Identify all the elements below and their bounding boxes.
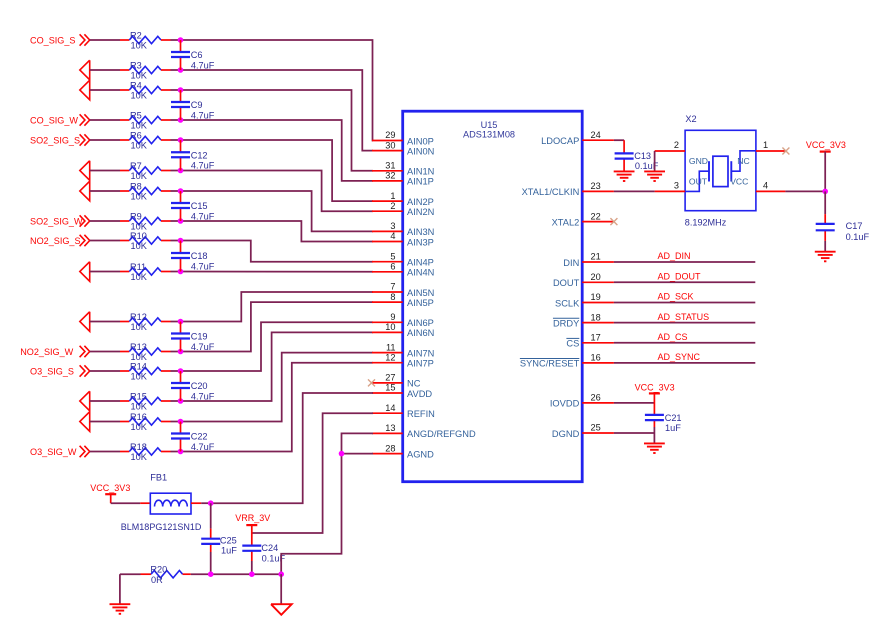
resistor R9 10K xyxy=(120,211,171,231)
svg-text:AD_STATUS: AD_STATUS xyxy=(658,312,710,322)
svg-text:C15: C15 xyxy=(191,201,208,211)
svg-text:C21: C21 xyxy=(665,413,682,423)
wire xyxy=(653,427,655,443)
capacitor C22 4.7uF xyxy=(180,422,182,452)
wire xyxy=(181,332,374,401)
port O3_SIG_W xyxy=(30,447,77,457)
pin 17 (CS) xyxy=(566,333,614,349)
svg-text:AIN0P: AIN0P xyxy=(407,136,434,146)
wire xyxy=(90,451,120,453)
svg-text:3: 3 xyxy=(390,221,395,231)
svg-text:REFIN: REFIN xyxy=(407,409,435,419)
wire xyxy=(614,302,755,304)
wire xyxy=(119,574,121,604)
pin 5 (AIN4P) xyxy=(372,251,434,267)
resistor R12 10K xyxy=(120,312,171,332)
capacitor C25 1uF xyxy=(201,529,237,556)
wire xyxy=(181,171,374,212)
no-connect marker pin 22 XTAL2 xyxy=(610,218,617,225)
svg-text:SO2_SIG_S: SO2_SIG_S xyxy=(30,135,80,145)
port NO2_SIG_S xyxy=(30,236,81,246)
svg-text:10K: 10K xyxy=(131,121,148,131)
pin 30 (AIN0N) xyxy=(372,140,434,156)
pin 20 (DOUT) xyxy=(553,272,614,288)
wire xyxy=(181,90,374,171)
wire xyxy=(181,292,374,322)
wire xyxy=(614,362,755,364)
ground at C13 xyxy=(614,171,635,181)
svg-text:31: 31 xyxy=(385,161,395,171)
svg-text:DGND: DGND xyxy=(552,429,580,439)
port CO_SIG_S xyxy=(30,35,76,45)
wire xyxy=(181,40,374,141)
svg-text:R3: R3 xyxy=(130,60,142,70)
svg-text:DRDY: DRDY xyxy=(553,318,579,328)
wire (AGND) xyxy=(342,453,374,455)
junction node R3 output xyxy=(178,67,184,73)
port (unconnected input) xyxy=(80,161,90,181)
svg-text:10K: 10K xyxy=(131,41,148,51)
svg-text:C22: C22 xyxy=(191,432,208,442)
svg-text:R20: R20 xyxy=(150,564,167,574)
svg-text:C9: C9 xyxy=(191,100,203,110)
IC U15 ADS131M08 body xyxy=(403,111,583,482)
svg-text:DIN: DIN xyxy=(563,258,579,268)
svg-text:3: 3 xyxy=(674,181,679,191)
junction node R14 output xyxy=(178,368,184,374)
pin 9 (AIN6P) xyxy=(372,312,434,328)
svg-text:10: 10 xyxy=(385,322,395,332)
svg-text:4.7uF: 4.7uF xyxy=(191,442,215,452)
wire xyxy=(171,321,181,323)
pin 22 (XTAL2) xyxy=(552,211,614,227)
svg-text:1: 1 xyxy=(390,191,395,201)
X2 pin 3 (OUT) xyxy=(655,181,686,192)
svg-text:AIN1N: AIN1N xyxy=(407,167,434,177)
wire xyxy=(120,573,141,575)
junction node R11 output xyxy=(178,269,184,275)
wire (ANGD/REFGND, AGND to rail) xyxy=(281,433,373,574)
wire xyxy=(181,353,374,422)
port (unconnected input) xyxy=(80,60,90,80)
wire xyxy=(90,39,120,41)
pin 28 (AGND) xyxy=(372,443,434,459)
junction node R5 output xyxy=(178,117,184,123)
svg-text:AGND: AGND xyxy=(407,449,434,459)
svg-text:4.7uF: 4.7uF xyxy=(191,261,215,271)
port arrow SO2_SIG_S xyxy=(80,134,90,145)
capacitor C12 4.7uF xyxy=(180,140,182,171)
junction node R13 output xyxy=(178,349,184,355)
wire xyxy=(181,191,374,231)
pin 31 (AIN1N) xyxy=(372,161,434,177)
wire xyxy=(171,39,181,41)
pin 8 (AIN5P) xyxy=(372,292,434,308)
wire xyxy=(90,220,120,222)
wire xyxy=(90,370,120,372)
wire xyxy=(210,552,212,574)
svg-text:R6: R6 xyxy=(130,130,142,140)
no-connect marker pin 27 xyxy=(368,379,375,386)
capacitor C21 1uF xyxy=(645,393,682,433)
resistor R8 10K xyxy=(120,181,171,201)
svg-text:AIN7P: AIN7P xyxy=(407,359,434,369)
chassis ground (analog) xyxy=(271,604,292,615)
junction node FB1 output xyxy=(208,500,214,506)
resistor R13 10K xyxy=(120,342,171,362)
svg-text:10K: 10K xyxy=(131,402,148,412)
wire xyxy=(171,451,181,453)
svg-text:18: 18 xyxy=(591,312,601,322)
junction node R9 output xyxy=(178,218,184,224)
wire xyxy=(181,140,374,201)
svg-text:22: 22 xyxy=(591,211,601,221)
svg-text:8: 8 xyxy=(390,292,395,302)
X2 pin 2 (GND) xyxy=(655,140,686,151)
svg-text:20: 20 xyxy=(591,272,601,282)
pin 10 (AIN6N) xyxy=(372,322,434,338)
svg-text:R7: R7 xyxy=(130,161,142,171)
svg-text:AIN5P: AIN5P xyxy=(407,298,434,308)
junction node R8 output xyxy=(178,188,184,194)
wire xyxy=(181,221,374,242)
port SO2_SIG_S xyxy=(30,135,80,145)
svg-text:NC: NC xyxy=(737,156,749,166)
wire xyxy=(181,241,374,262)
svg-text:GND: GND xyxy=(689,156,708,166)
pin 32 (AIN1P) xyxy=(372,171,434,187)
pin 29 (AIN0P) xyxy=(372,130,434,146)
pin 21 (DIN) xyxy=(563,252,614,268)
svg-text:R16: R16 xyxy=(130,412,147,422)
wire xyxy=(824,152,826,192)
svg-text:XTAL1/CLKIN: XTAL1/CLKIN xyxy=(522,187,580,197)
svg-text:0.1uF: 0.1uF xyxy=(846,232,870,242)
svg-text:C17: C17 xyxy=(846,221,863,231)
svg-text:16: 16 xyxy=(591,353,601,363)
pin 12 (AIN7P) xyxy=(372,352,434,368)
power VCC_3V3 (FB1 input) xyxy=(90,483,130,503)
junction node R2 output xyxy=(178,37,184,43)
wire xyxy=(171,240,181,242)
svg-text:R5: R5 xyxy=(130,110,142,120)
crystal X2 8.192MHz body xyxy=(685,114,756,227)
pin 3 (AIN3N) xyxy=(372,221,434,237)
svg-text:AIN6N: AIN6N xyxy=(407,328,434,338)
resistor R15 10K xyxy=(120,391,171,411)
wire xyxy=(191,573,281,575)
svg-text:C24: C24 xyxy=(261,543,278,553)
svg-text:SYNC/RESET: SYNC/RESET xyxy=(520,359,580,369)
junction node R10 output xyxy=(178,238,184,244)
wire xyxy=(280,574,282,604)
svg-text:BLM18PG121SN1D: BLM18PG121SN1D xyxy=(121,522,202,532)
svg-text:C20: C20 xyxy=(191,381,208,391)
svg-text:15: 15 xyxy=(385,383,395,393)
svg-text:XTAL2: XTAL2 xyxy=(552,217,580,227)
svg-text:AD_SYNC: AD_SYNC xyxy=(658,352,701,362)
svg-text:C18: C18 xyxy=(191,251,208,261)
resistor R18 10K xyxy=(120,442,171,462)
svg-text:AD_DIN: AD_DIN xyxy=(658,251,691,261)
svg-text:AIN3N: AIN3N xyxy=(407,227,434,237)
wire xyxy=(210,503,212,528)
svg-text:CO_SIG_W: CO_SIG_W xyxy=(30,115,78,125)
svg-text:SO2_SIG_W: SO2_SIG_W xyxy=(30,216,83,226)
capacitor C9 4.7uF xyxy=(180,90,182,120)
svg-text:4.7uF: 4.7uF xyxy=(191,161,215,171)
svg-text:IOVDD: IOVDD xyxy=(550,399,580,409)
svg-text:CO_SIG_S: CO_SIG_S xyxy=(30,35,76,45)
svg-text:4.7uF: 4.7uF xyxy=(191,211,215,221)
port arrow CO_SIG_S xyxy=(80,34,90,45)
svg-text:21: 21 xyxy=(591,252,601,262)
pin 1 (AIN2P) xyxy=(372,191,434,207)
svg-text:4: 4 xyxy=(763,181,768,191)
wire xyxy=(614,402,655,404)
pin 7 (AIN5N) xyxy=(372,282,434,298)
port arrow O3_SIG_S xyxy=(80,365,90,376)
wire (to AVDD) xyxy=(211,393,373,503)
svg-text:AIN6P: AIN6P xyxy=(407,318,434,328)
junction node VCC_3V3/X2 xyxy=(822,189,828,195)
svg-text:U15: U15 xyxy=(481,120,498,130)
port arrow CO_SIG_W xyxy=(80,114,90,125)
svg-text:AIN2N: AIN2N xyxy=(407,207,434,217)
capacitor C17 0.1uF xyxy=(816,214,870,242)
svg-text:R14: R14 xyxy=(130,361,147,371)
junction node R15 output xyxy=(178,398,184,404)
svg-text:4.7uF: 4.7uF xyxy=(191,60,215,70)
resistor R5 10K xyxy=(120,110,171,130)
svg-text:1uF: 1uF xyxy=(221,546,237,556)
svg-text:2: 2 xyxy=(390,201,395,211)
wire xyxy=(171,119,181,121)
svg-text:VCC_3V3: VCC_3V3 xyxy=(806,140,846,150)
svg-text:C6: C6 xyxy=(191,50,203,60)
wire xyxy=(171,370,181,372)
svg-text:R15: R15 xyxy=(130,391,147,401)
port arrow O3_SIG_W xyxy=(80,446,90,457)
wire xyxy=(181,70,374,151)
resistor R10 10K xyxy=(120,231,171,251)
wire xyxy=(90,271,120,273)
wire xyxy=(785,190,825,192)
wire xyxy=(90,400,120,402)
svg-text:30: 30 xyxy=(385,140,395,150)
svg-text:0R: 0R xyxy=(151,575,163,585)
svg-text:O3_SIG_W: O3_SIG_W xyxy=(30,447,77,457)
wire xyxy=(171,89,181,91)
svg-text:26: 26 xyxy=(591,393,601,403)
wire xyxy=(614,432,655,434)
svg-text:10K: 10K xyxy=(131,192,148,202)
svg-text:17: 17 xyxy=(591,333,601,343)
wire xyxy=(90,240,120,242)
power VCC_3V3 (IOVDD) xyxy=(635,382,675,393)
svg-text:ANGD/REFGND: ANGD/REFGND xyxy=(407,429,476,439)
svg-text:32: 32 xyxy=(385,171,395,181)
svg-text:24: 24 xyxy=(591,130,601,140)
pin 19 (SCLK) xyxy=(555,292,614,308)
ground at C17 xyxy=(815,252,836,262)
svg-text:R8: R8 xyxy=(130,181,142,191)
ferrite bead FB1 BLM18PG121SN1D xyxy=(121,472,202,532)
svg-text:R11: R11 xyxy=(130,262,146,272)
wire xyxy=(90,351,120,353)
wire xyxy=(654,151,656,171)
svg-text:10K: 10K xyxy=(131,372,148,382)
svg-text:R13: R13 xyxy=(130,342,147,352)
port CO_SIG_W xyxy=(30,115,78,125)
svg-text:19: 19 xyxy=(591,292,601,302)
svg-text:R2: R2 xyxy=(130,30,142,40)
junction node R16 output xyxy=(178,419,184,425)
port arrow SO2_SIG_W xyxy=(80,215,90,226)
wire (VRR to REFIN) xyxy=(252,413,373,533)
svg-text:8.192MHz: 8.192MHz xyxy=(685,217,727,227)
svg-text:VCC: VCC xyxy=(730,177,748,187)
svg-text:AIN4P: AIN4P xyxy=(407,258,434,268)
resistor R3 10K xyxy=(120,60,171,80)
capacitor C15 4.7uF xyxy=(180,191,182,221)
svg-text:29: 29 xyxy=(385,130,395,140)
svg-text:1: 1 xyxy=(763,140,768,150)
svg-text:23: 23 xyxy=(591,181,601,191)
pin 24 (LDOCAP) xyxy=(541,130,614,146)
resistor R16 10K xyxy=(120,412,171,432)
pin 2 (AIN2N) xyxy=(372,201,434,217)
ground at C21/DGND xyxy=(644,443,665,453)
port SO2_SIG_W xyxy=(30,216,83,226)
wire xyxy=(90,190,120,192)
capacitor C13 0.1uF xyxy=(615,140,659,171)
wire xyxy=(251,561,253,574)
pin 6 (AIN4N) xyxy=(372,262,434,278)
wire xyxy=(90,89,120,91)
resistor R20 0R xyxy=(141,564,191,585)
svg-text:NC: NC xyxy=(407,379,421,389)
svg-text:13: 13 xyxy=(385,423,395,433)
port (unconnected input) xyxy=(80,412,90,432)
capacitor C20 4.7uF xyxy=(180,371,182,401)
pin 11 (AIN7N) xyxy=(372,342,434,358)
svg-text:AD_SCK: AD_SCK xyxy=(658,292,694,302)
svg-text:10K: 10K xyxy=(131,322,148,332)
wire xyxy=(614,281,755,283)
svg-text:12: 12 xyxy=(385,352,395,362)
svg-text:R12: R12 xyxy=(130,312,147,322)
svg-text:X2: X2 xyxy=(685,114,696,124)
pin 25 (DGND) xyxy=(552,423,614,439)
resistor R2 10K xyxy=(120,30,171,50)
wire xyxy=(111,502,141,504)
svg-text:C25: C25 xyxy=(220,536,237,546)
svg-text:10K: 10K xyxy=(131,71,148,81)
svg-text:9: 9 xyxy=(390,312,395,322)
wire xyxy=(171,139,181,141)
svg-text:SCLK: SCLK xyxy=(555,298,580,308)
port (unconnected input) xyxy=(80,80,90,100)
svg-text:R18: R18 xyxy=(130,442,147,452)
svg-text:CS: CS xyxy=(566,339,579,349)
junction node R7 output xyxy=(178,168,184,174)
no-connect marker X2 pin 1 xyxy=(782,148,789,155)
svg-text:AD_DOUT: AD_DOUT xyxy=(658,272,702,282)
svg-text:14: 14 xyxy=(385,403,395,413)
capacitor C24 0.1uF xyxy=(242,525,285,563)
X2 pin 4 (VCC) xyxy=(756,181,786,192)
svg-text:27: 27 xyxy=(385,373,395,383)
pin 4 (AIN3P) xyxy=(372,231,434,247)
pin 27 (NC) xyxy=(372,373,421,389)
svg-text:4.7uF: 4.7uF xyxy=(191,342,215,352)
pin 23 (XTAL1/CLKIN) xyxy=(522,181,614,197)
wire xyxy=(90,139,120,141)
wire xyxy=(614,261,755,263)
svg-text:AIN5N: AIN5N xyxy=(407,288,434,298)
svg-text:FB1: FB1 xyxy=(150,472,167,482)
svg-text:AIN0N: AIN0N xyxy=(407,146,434,156)
svg-text:VRR_3V: VRR_3V xyxy=(235,513,270,523)
wire xyxy=(201,502,211,504)
svg-text:R4: R4 xyxy=(130,80,142,90)
svg-text:NO2_SIG_W: NO2_SIG_W xyxy=(20,347,73,357)
port (unconnected input) xyxy=(80,312,90,332)
wire xyxy=(171,271,181,273)
wire xyxy=(90,421,120,423)
svg-text:10K: 10K xyxy=(131,241,148,251)
pin 13 (ANGD/REFGND) xyxy=(372,423,476,439)
wire xyxy=(90,119,120,121)
svg-text:10K: 10K xyxy=(131,141,148,151)
svg-text:AVDD: AVDD xyxy=(407,389,432,399)
svg-text:4: 4 xyxy=(390,231,395,241)
junction node AGND xyxy=(339,451,345,457)
wire xyxy=(824,241,826,252)
wire xyxy=(614,190,655,192)
port arrow NO2_SIG_W xyxy=(80,346,90,357)
junction node R18 output xyxy=(178,449,184,455)
svg-text:VCC_3V3: VCC_3V3 xyxy=(635,382,675,392)
svg-text:AIN4N: AIN4N xyxy=(407,268,434,278)
resistor R11 10K xyxy=(120,262,171,282)
svg-text:7: 7 xyxy=(390,282,395,292)
port O3_SIG_S xyxy=(30,366,74,376)
power VCC_3V3 (crystal supply) xyxy=(806,140,846,152)
wire xyxy=(614,139,624,141)
wire xyxy=(90,321,120,323)
capacitor C19 4.7uF xyxy=(180,322,182,352)
svg-text:C19: C19 xyxy=(191,332,208,342)
capacitor C18 4.7uF xyxy=(180,241,182,272)
port (unconnected input) xyxy=(80,262,90,282)
pin 18 (DRDY) xyxy=(553,312,614,328)
wire xyxy=(614,342,755,344)
svg-text:DOUT: DOUT xyxy=(553,278,580,288)
wire xyxy=(171,400,181,402)
svg-text:10K: 10K xyxy=(131,91,148,101)
svg-text:2: 2 xyxy=(674,140,679,150)
X2 pin 1 (NC) xyxy=(756,140,786,151)
svg-text:AIN3P: AIN3P xyxy=(407,237,434,247)
svg-text:O3_SIG_S: O3_SIG_S xyxy=(30,366,74,376)
pin 26 (IOVDD) xyxy=(550,393,614,409)
junction node C25/rail xyxy=(208,571,214,577)
svg-text:1uF: 1uF xyxy=(665,423,681,433)
resistor R4 10K xyxy=(120,80,171,100)
wire xyxy=(171,220,181,222)
